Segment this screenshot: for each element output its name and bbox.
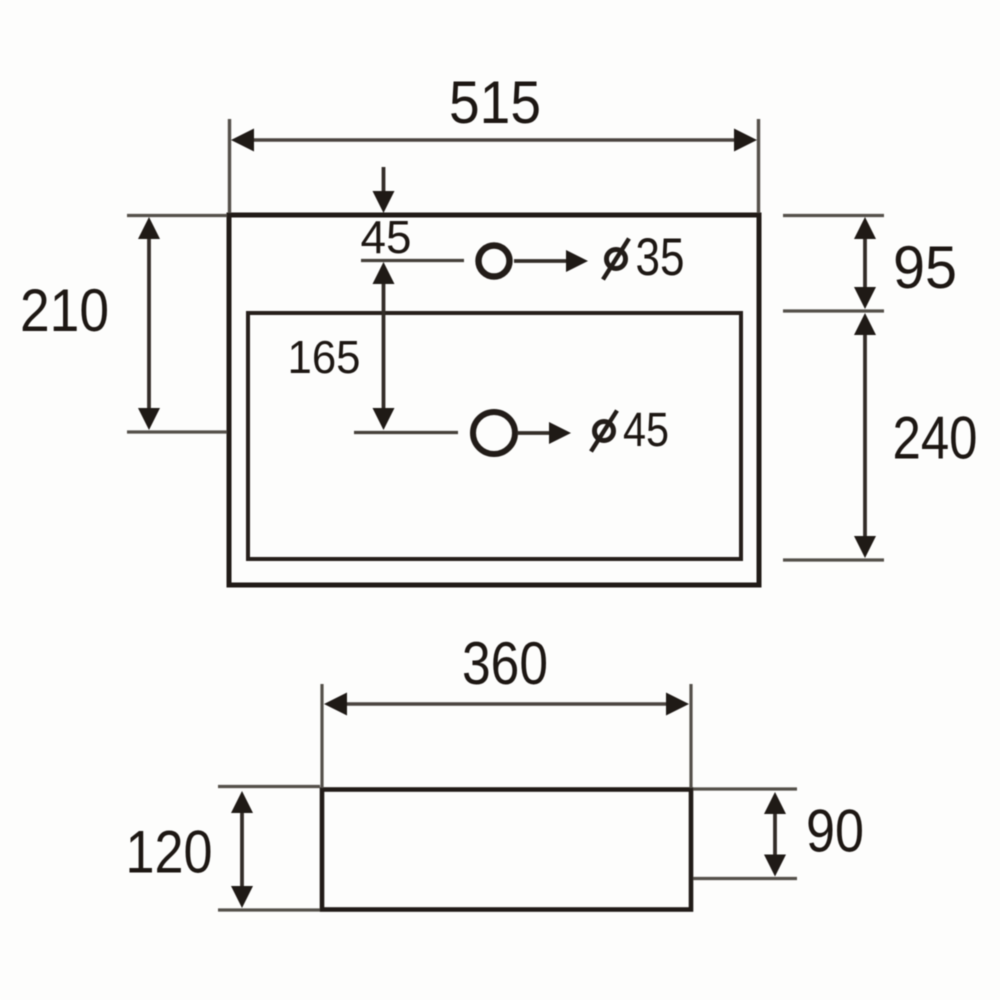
dimension 360 arrowhead left bbox=[324, 693, 347, 716]
dimension 240 extension line bottom bbox=[783, 558, 884, 561]
svg-text:95: 95 bbox=[893, 234, 957, 301]
svg-text:210: 210 bbox=[20, 277, 109, 344]
dimension 95 arrowhead down bbox=[854, 287, 876, 309]
dimension 120 arrowhead up bbox=[231, 791, 253, 813]
basin body rectangle (front/side view) bbox=[322, 790, 691, 910]
dimension 95 line bbox=[863, 235, 867, 291]
ø35 leader arrow bbox=[514, 259, 568, 263]
dimension 210 arrowhead down bbox=[138, 408, 160, 430]
dimension 240 arrowhead down bbox=[854, 536, 876, 558]
dimension 90 arrowhead up bbox=[764, 792, 786, 814]
dimension 90 arrowhead down bbox=[764, 855, 786, 877]
dimension 95 arrowhead up bbox=[854, 217, 876, 239]
svg-text:90: 90 bbox=[806, 798, 864, 865]
basin outer rim rectangle (top view) bbox=[229, 215, 759, 585]
dimension 515 extension line left bbox=[228, 119, 231, 213]
dimension 210 arrowhead up bbox=[138, 217, 160, 239]
dimension 210 extension line top bbox=[127, 214, 227, 217]
ø35 label diameter symbol bbox=[607, 250, 626, 269]
dimension 45 upper arrow (pointing down at rim top edge) bbox=[382, 167, 386, 196]
dimension 210 line bbox=[147, 235, 151, 412]
dimension 515 line bbox=[242, 138, 748, 142]
svg-text:35: 35 bbox=[636, 228, 685, 287]
ø35 hole centerline bbox=[361, 259, 464, 262]
faucet hole circle ø35 bbox=[479, 246, 510, 277]
dimension 120 extension line top bbox=[218, 785, 320, 788]
ø45 label diameter symbol bbox=[595, 422, 614, 441]
dimension 240 arrowhead up bbox=[854, 313, 876, 335]
dimension 515 arrowhead left bbox=[231, 129, 254, 152]
dimension 360 line bbox=[334, 702, 678, 706]
svg-text:165: 165 bbox=[288, 331, 361, 383]
dimension 90 line bbox=[773, 809, 777, 860]
svg-text:360: 360 bbox=[462, 630, 548, 697]
dimension 90 extension line top bbox=[693, 787, 797, 790]
ø45 hole centerline bbox=[354, 431, 458, 434]
dimension 120 extension line bottom bbox=[218, 908, 320, 911]
dimension 240 line bbox=[863, 332, 867, 540]
dimension 95/240 middle extension line bbox=[783, 309, 884, 312]
dimension 360 arrowhead right bbox=[666, 693, 689, 716]
dimension 90 extension line bottom bbox=[693, 877, 797, 880]
svg-text:45: 45 bbox=[623, 404, 669, 457]
dimension 120 arrowhead down bbox=[231, 886, 253, 908]
dimension 120 line bbox=[240, 808, 244, 890]
drain hole circle ø45 bbox=[473, 412, 515, 454]
ø45 leader arrow bbox=[517, 431, 551, 435]
svg-text:120: 120 bbox=[126, 819, 213, 886]
svg-text:515: 515 bbox=[449, 69, 541, 136]
dimension 165 shaft with up arrow (at ø35 centerline) and down arrow (at ø45 centerline) bbox=[382, 280, 386, 412]
dimension 360 extension line left bbox=[320, 684, 323, 788]
dimension 210 extension line bottom bbox=[127, 430, 227, 433]
dimension 360 extension line right bbox=[689, 684, 692, 788]
dimension 515 extension line right bbox=[757, 119, 760, 213]
svg-text:240: 240 bbox=[893, 405, 978, 472]
dimension 515 arrowhead right bbox=[734, 129, 757, 152]
basin inner bowl rectangle (top view) bbox=[248, 313, 741, 559]
svg-text:45: 45 bbox=[361, 211, 412, 263]
dimension 95 extension line top bbox=[783, 214, 884, 217]
